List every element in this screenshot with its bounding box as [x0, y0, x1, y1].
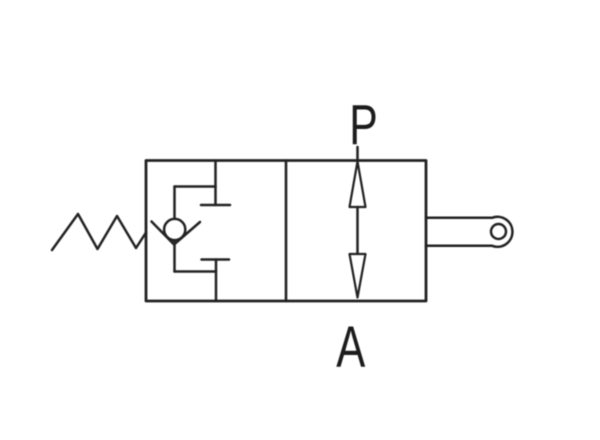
wire: poppet vertical line: [173, 187, 176, 272]
wire: bottom stem to seat: [215, 260, 218, 302]
wire: flow path middle: [356, 207, 359, 254]
wire: bottom bracket horizontal: [175, 270, 217, 273]
check valve poppet ball: [164, 219, 185, 240]
seat bar top: [201, 204, 230, 207]
check valve seat apex blob: [171, 241, 178, 247]
svg-text:P: P: [349, 92, 378, 156]
check valve V-seat: [152, 222, 201, 245]
seat bar bottom: [202, 258, 230, 261]
flow arrow head up: [350, 162, 366, 208]
svg-text:A: A: [336, 315, 366, 379]
wire: top stem to seat (left cell): [214, 161, 217, 206]
spring: [52, 214, 146, 250]
wire: port P stub: [356, 147, 359, 161]
valve body (2-position envelope): [146, 161, 426, 302]
flow arrow head down: [350, 254, 366, 298]
roller/clevis actuator body: [426, 217, 512, 247]
position divider: [285, 161, 288, 302]
wire: top bracket horizontal: [175, 185, 216, 188]
roller pin: [491, 224, 506, 239]
